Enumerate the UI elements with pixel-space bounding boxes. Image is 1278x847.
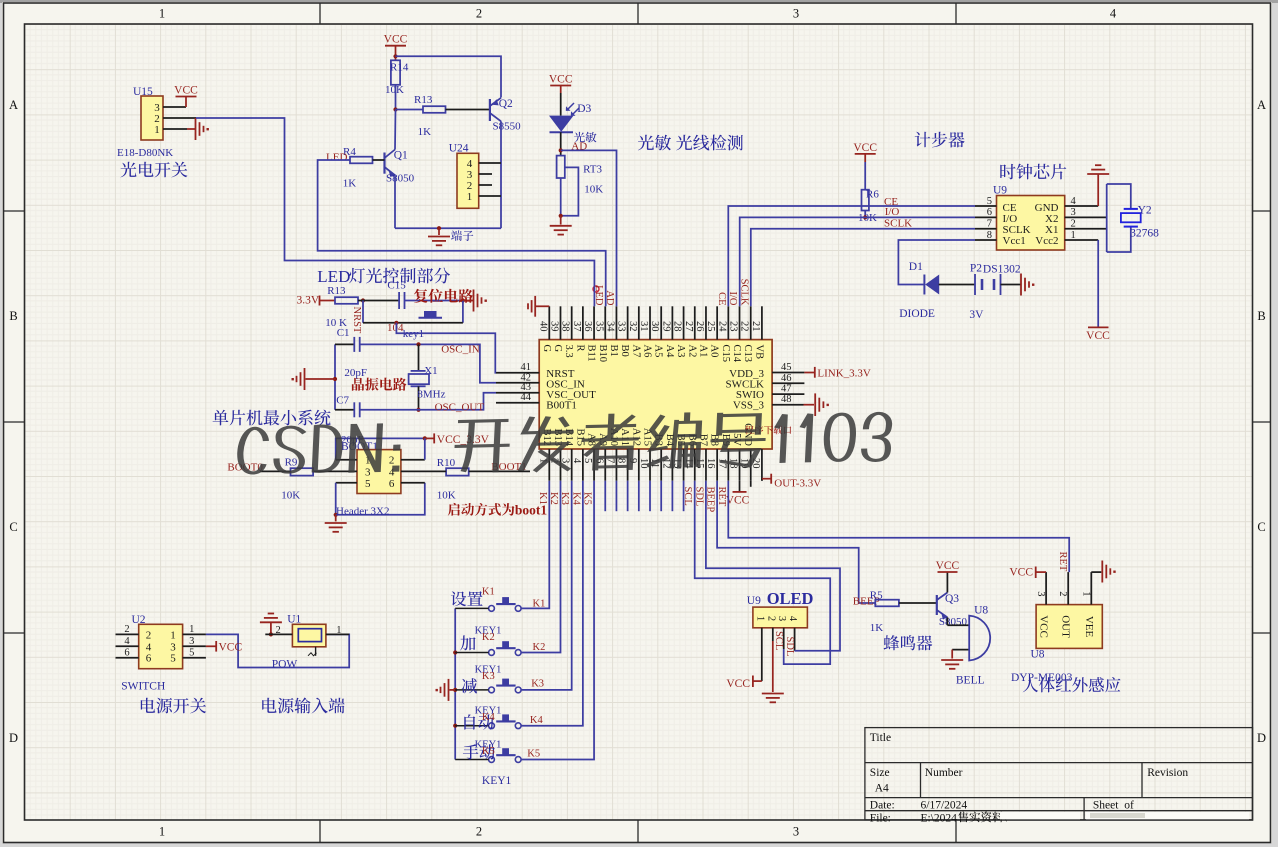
svg-text:LINK_3.3V: LINK_3.3V bbox=[817, 368, 871, 380]
svg-text:Y2: Y2 bbox=[1138, 205, 1152, 217]
svg-text:10K: 10K bbox=[385, 84, 404, 96]
svg-text:38: 38 bbox=[560, 321, 571, 332]
svg-text:B0: B0 bbox=[619, 345, 630, 357]
svg-text:Size: Size bbox=[870, 767, 890, 779]
svg-text:D3: D3 bbox=[577, 103, 591, 115]
svg-text:OSC_IN: OSC_IN bbox=[441, 344, 480, 356]
svg-text:OUT: OUT bbox=[1060, 615, 1072, 638]
svg-text:1: 1 bbox=[467, 191, 473, 203]
svg-text:U24: U24 bbox=[449, 143, 469, 155]
svg-text:10K: 10K bbox=[584, 184, 603, 196]
svg-text:36: 36 bbox=[582, 321, 593, 332]
svg-text:DS1302: DS1302 bbox=[983, 264, 1021, 276]
svg-text:VCC: VCC bbox=[549, 74, 573, 86]
svg-text:3: 3 bbox=[365, 466, 371, 478]
svg-text:34: 34 bbox=[604, 321, 615, 332]
svg-text:R13: R13 bbox=[327, 285, 346, 297]
svg-text:39: 39 bbox=[548, 321, 559, 332]
svg-text:8: 8 bbox=[616, 458, 627, 463]
svg-text:1: 1 bbox=[159, 825, 165, 839]
svg-text:2: 2 bbox=[476, 7, 482, 21]
svg-text:POW: POW bbox=[272, 658, 298, 670]
svg-text:3.3: 3.3 bbox=[563, 345, 574, 358]
svg-text:Header 3X2: Header 3X2 bbox=[336, 506, 389, 518]
svg-text:LED: LED bbox=[317, 267, 350, 286]
svg-text:P2: P2 bbox=[970, 263, 982, 275]
svg-text:LED: LED bbox=[326, 152, 347, 164]
svg-text:B: B bbox=[9, 309, 17, 323]
svg-text:R10: R10 bbox=[437, 457, 456, 469]
svg-text:30: 30 bbox=[649, 321, 660, 332]
svg-text:5: 5 bbox=[170, 653, 176, 665]
svg-text:R9: R9 bbox=[285, 457, 298, 469]
svg-text:G: G bbox=[552, 345, 563, 353]
svg-text:1: 1 bbox=[170, 629, 176, 641]
svg-text:VCC: VCC bbox=[853, 142, 877, 154]
svg-text:1K: 1K bbox=[870, 622, 884, 634]
svg-text:44: 44 bbox=[521, 392, 532, 403]
svg-text:3: 3 bbox=[776, 616, 787, 621]
svg-text:3: 3 bbox=[793, 825, 799, 839]
svg-text:32: 32 bbox=[627, 321, 638, 332]
svg-text:3.3V: 3.3V bbox=[297, 295, 320, 307]
svg-text:104: 104 bbox=[387, 322, 404, 334]
svg-text:C: C bbox=[9, 520, 17, 534]
svg-text:2: 2 bbox=[765, 616, 776, 621]
svg-text:20pF: 20pF bbox=[344, 367, 367, 379]
svg-text:VCC: VCC bbox=[219, 642, 243, 654]
svg-text:X1: X1 bbox=[424, 365, 437, 377]
svg-text:RET: RET bbox=[1057, 552, 1068, 572]
svg-text:E18-D80NK: E18-D80NK bbox=[117, 147, 173, 159]
svg-text:22: 22 bbox=[739, 321, 750, 332]
svg-text:K2: K2 bbox=[482, 632, 495, 643]
svg-text:S8550: S8550 bbox=[493, 121, 522, 133]
svg-text:27: 27 bbox=[683, 321, 694, 332]
svg-text:46: 46 bbox=[781, 373, 792, 384]
svg-text:1: 1 bbox=[1080, 591, 1091, 596]
svg-text:2: 2 bbox=[389, 455, 395, 467]
svg-text:1: 1 bbox=[754, 616, 765, 621]
svg-text:KEY1: KEY1 bbox=[482, 775, 512, 787]
svg-text:VSS_3: VSS_3 bbox=[733, 400, 765, 412]
svg-text:1K: 1K bbox=[418, 126, 432, 138]
svg-text:VCC: VCC bbox=[384, 34, 408, 46]
svg-text:R5: R5 bbox=[870, 590, 883, 602]
svg-text:A1: A1 bbox=[697, 345, 708, 358]
svg-text:K2: K2 bbox=[533, 642, 546, 653]
svg-text:2: 2 bbox=[1057, 591, 1068, 596]
svg-text:I/O: I/O bbox=[885, 206, 900, 218]
svg-text:2: 2 bbox=[476, 825, 482, 839]
svg-text:4: 4 bbox=[787, 616, 798, 622]
svg-text:File:: File: bbox=[870, 812, 891, 824]
svg-text:3V: 3V bbox=[969, 309, 984, 321]
svg-text:6/17/2024: 6/17/2024 bbox=[921, 800, 968, 812]
svg-text:3: 3 bbox=[189, 636, 194, 647]
svg-text:31: 31 bbox=[638, 321, 649, 332]
svg-text:4: 4 bbox=[146, 641, 152, 653]
svg-text:NRST: NRST bbox=[351, 307, 362, 334]
svg-text:1: 1 bbox=[154, 124, 160, 136]
svg-text:VCC: VCC bbox=[726, 678, 750, 690]
svg-text:Number: Number bbox=[925, 767, 963, 779]
svg-text:VCC: VCC bbox=[936, 560, 960, 572]
svg-text:28: 28 bbox=[672, 321, 683, 332]
svg-text:Revision: Revision bbox=[1147, 767, 1188, 779]
svg-text:B15: B15 bbox=[574, 428, 585, 446]
svg-text:32768: 32768 bbox=[1130, 228, 1159, 240]
svg-text:37: 37 bbox=[571, 321, 582, 332]
svg-text:Date:: Date: bbox=[870, 800, 895, 812]
svg-text:45: 45 bbox=[781, 362, 792, 373]
svg-text:VCC: VCC bbox=[174, 85, 198, 97]
svg-text:33: 33 bbox=[616, 321, 627, 332]
svg-text:VCC_3.3V: VCC_3.3V bbox=[437, 434, 490, 446]
svg-text:K5: K5 bbox=[482, 746, 495, 757]
svg-text:A: A bbox=[1257, 98, 1266, 112]
svg-text:6: 6 bbox=[389, 478, 395, 490]
svg-text:VCC: VCC bbox=[1086, 330, 1110, 342]
svg-text:OSC_OUT: OSC_OUT bbox=[435, 402, 485, 414]
svg-text:S8050: S8050 bbox=[386, 173, 415, 185]
svg-text:A2: A2 bbox=[686, 345, 697, 358]
svg-text:5: 5 bbox=[189, 647, 194, 658]
svg-text:D: D bbox=[9, 731, 18, 745]
svg-text:K3: K3 bbox=[531, 679, 544, 690]
svg-text:1: 1 bbox=[159, 7, 165, 21]
svg-text:4: 4 bbox=[1110, 7, 1117, 21]
svg-text:29: 29 bbox=[660, 321, 671, 332]
svg-text:C13: C13 bbox=[742, 345, 753, 363]
svg-text:BELL: BELL bbox=[956, 675, 985, 687]
svg-text:RT3: RT3 bbox=[583, 164, 602, 176]
svg-text:A: A bbox=[9, 98, 18, 112]
svg-text:SCLK: SCLK bbox=[884, 218, 912, 230]
svg-text:A4: A4 bbox=[875, 783, 889, 795]
svg-text:8: 8 bbox=[987, 230, 992, 241]
svg-text:U9: U9 bbox=[993, 185, 1007, 197]
svg-text:40: 40 bbox=[537, 321, 548, 332]
svg-text:E:\2024: E:\2024 bbox=[921, 812, 958, 824]
svg-text:U8: U8 bbox=[1031, 649, 1045, 661]
svg-text:boot1: boot1 bbox=[515, 503, 548, 518]
svg-text:21: 21 bbox=[750, 321, 761, 332]
svg-text:SWITCH: SWITCH bbox=[121, 681, 165, 693]
svg-text:10K: 10K bbox=[437, 490, 456, 502]
svg-text:U8: U8 bbox=[974, 605, 988, 617]
svg-text:R14: R14 bbox=[390, 62, 409, 74]
svg-text:SDL: SDL bbox=[784, 637, 795, 657]
svg-text:OLED: OLED bbox=[767, 589, 814, 608]
svg-text:GND: GND bbox=[742, 423, 753, 446]
svg-text:K1: K1 bbox=[533, 599, 546, 610]
svg-text:C: C bbox=[1257, 520, 1265, 534]
svg-text:6: 6 bbox=[987, 207, 992, 218]
svg-text:D: D bbox=[1257, 731, 1266, 745]
svg-text:B11: B11 bbox=[586, 345, 597, 362]
svg-text:K5: K5 bbox=[527, 749, 540, 760]
svg-text:C14: C14 bbox=[731, 345, 742, 363]
svg-text:Q3: Q3 bbox=[945, 593, 959, 605]
svg-text:5: 5 bbox=[582, 458, 593, 463]
svg-text:B10: B10 bbox=[597, 345, 608, 363]
svg-text:K3: K3 bbox=[482, 671, 495, 682]
svg-text:26: 26 bbox=[694, 321, 705, 332]
svg-text:VEE: VEE bbox=[1083, 616, 1095, 638]
svg-text:24: 24 bbox=[716, 321, 727, 332]
svg-text:35: 35 bbox=[593, 321, 604, 332]
svg-text:A6: A6 bbox=[642, 345, 653, 358]
svg-text:48: 48 bbox=[781, 394, 792, 405]
svg-text:OUT-3.3V: OUT-3.3V bbox=[774, 478, 821, 490]
svg-text:4: 4 bbox=[571, 458, 582, 464]
svg-text:Sheet of: Sheet of bbox=[1093, 800, 1134, 812]
svg-text:A12: A12 bbox=[630, 428, 641, 446]
svg-text:Q2: Q2 bbox=[499, 98, 513, 110]
svg-text:4: 4 bbox=[124, 636, 130, 647]
svg-text:B: B bbox=[1257, 309, 1265, 323]
svg-text:K4: K4 bbox=[482, 712, 496, 723]
svg-text:C7: C7 bbox=[336, 395, 349, 407]
svg-text:Title: Title bbox=[870, 732, 891, 744]
svg-text:5: 5 bbox=[365, 478, 371, 490]
svg-text:S8050: S8050 bbox=[939, 616, 968, 628]
svg-text:A3: A3 bbox=[675, 345, 686, 358]
svg-text:1: 1 bbox=[189, 624, 194, 635]
svg-text:K4: K4 bbox=[530, 715, 544, 726]
svg-text:6: 6 bbox=[146, 653, 152, 665]
svg-text:CE: CE bbox=[716, 292, 727, 305]
svg-text:VB: VB bbox=[753, 345, 764, 360]
svg-text:U15: U15 bbox=[133, 86, 153, 98]
svg-text:8MHz: 8MHz bbox=[417, 389, 445, 401]
svg-text:C15: C15 bbox=[720, 345, 731, 363]
svg-text:3: 3 bbox=[170, 641, 176, 653]
svg-text:U9: U9 bbox=[747, 595, 761, 607]
svg-text:10K: 10K bbox=[281, 490, 300, 502]
svg-text:6: 6 bbox=[124, 647, 129, 658]
svg-text:A7: A7 bbox=[630, 345, 641, 358]
svg-text:C1: C1 bbox=[337, 327, 350, 339]
svg-text:1K: 1K bbox=[343, 178, 357, 190]
svg-text:A4: A4 bbox=[664, 345, 675, 359]
svg-text:25: 25 bbox=[705, 321, 716, 332]
svg-text:VCC: VCC bbox=[726, 495, 750, 507]
svg-text:K1: K1 bbox=[482, 587, 495, 598]
svg-text:A0: A0 bbox=[709, 345, 720, 358]
svg-text:G: G bbox=[541, 345, 552, 353]
svg-text:Q1: Q1 bbox=[394, 150, 408, 162]
svg-text:2: 2 bbox=[146, 629, 152, 641]
svg-text:7: 7 bbox=[987, 219, 992, 230]
svg-text:2: 2 bbox=[124, 624, 129, 635]
svg-text:5: 5 bbox=[987, 196, 992, 207]
svg-text:C15: C15 bbox=[387, 280, 406, 292]
svg-text:DIODE: DIODE bbox=[899, 308, 935, 320]
svg-text:A11: A11 bbox=[619, 428, 630, 446]
svg-text:3: 3 bbox=[793, 7, 799, 21]
svg-text:B1: B1 bbox=[608, 345, 619, 357]
svg-text:D1: D1 bbox=[909, 261, 923, 273]
svg-text:VCC: VCC bbox=[1038, 615, 1050, 638]
svg-text:R: R bbox=[574, 345, 585, 352]
svg-text:A5: A5 bbox=[653, 345, 664, 358]
svg-text:3: 3 bbox=[1035, 591, 1046, 596]
svg-text:R13: R13 bbox=[414, 94, 433, 106]
svg-text:16: 16 bbox=[705, 458, 716, 469]
svg-text:Vcc1: Vcc1 bbox=[1003, 235, 1026, 247]
svg-text:23: 23 bbox=[728, 321, 739, 332]
svg-text:47: 47 bbox=[781, 384, 792, 395]
svg-text:VCC: VCC bbox=[1009, 567, 1033, 579]
svg-text:10: 10 bbox=[638, 458, 649, 469]
svg-text:B00T1: B00T1 bbox=[546, 400, 577, 412]
svg-text:SCL: SCL bbox=[773, 631, 784, 650]
svg-text:Vcc2: Vcc2 bbox=[1035, 235, 1058, 247]
svg-text:R6: R6 bbox=[866, 189, 879, 201]
